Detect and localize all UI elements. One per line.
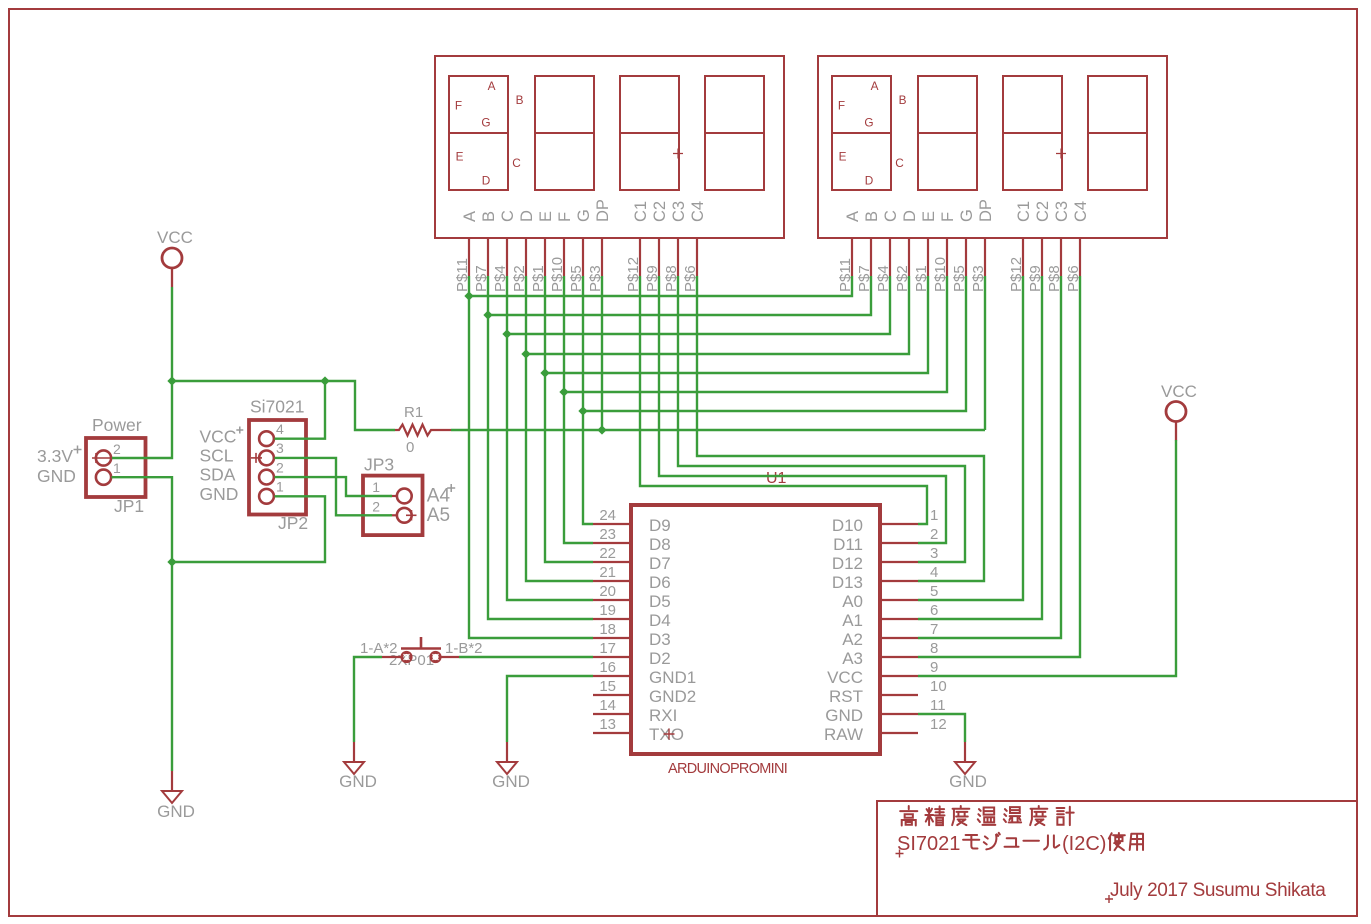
wire net VCC: right symbol to U1 pin 9 — [918, 440, 1176, 676]
svg-text:E: E — [920, 211, 938, 222]
svg-text:C4: C4 — [1072, 201, 1090, 222]
wire net DIG1_C2: display1 C2 to U1 pin 2 — [659, 276, 946, 543]
svg-text:GND: GND — [949, 772, 987, 791]
svg-text:A2: A2 — [842, 630, 863, 649]
svg-text:E: E — [456, 150, 464, 164]
svg-text:1-B*2: 1-B*2 — [445, 640, 483, 657]
svg-text:D4: D4 — [649, 611, 671, 630]
svg-text:D13: D13 — [832, 573, 863, 592]
wire net SEG_C: display1 to U1 pin 20 — [507, 276, 593, 600]
origin cross author line — [1105, 895, 1113, 903]
svg-text:C1: C1 — [632, 201, 650, 222]
resistor R1 value 0 — [395, 425, 451, 436]
wire net SEG_E: display2 to display1 — [545, 276, 928, 373]
svg-text:Power: Power — [92, 415, 142, 435]
wire net DIG2_C2: display2 C2 to U1 pin 6 — [918, 276, 1042, 619]
title block box — [877, 801, 1357, 916]
svg-text:B: B — [899, 93, 907, 107]
pushbutton S1 (reset jumper 1-A / 1-B) — [382, 637, 459, 669]
svg-text:D3: D3 — [649, 630, 671, 649]
svg-text:A: A — [488, 79, 496, 93]
svg-text:D: D — [518, 210, 536, 222]
wire net DIG1_C4: display1 C4 to U1 pin 4 — [697, 276, 984, 581]
svg-text:G: G — [481, 116, 490, 130]
svg-text:D5: D5 — [649, 592, 671, 611]
svg-text:A: A — [461, 211, 479, 222]
svg-text:JP3: JP3 — [364, 455, 394, 475]
svg-text:9: 9 — [930, 659, 938, 676]
junction SEG_D — [521, 349, 530, 358]
svg-text:GND: GND — [825, 706, 863, 725]
svg-text:13: 13 — [599, 716, 616, 733]
svg-text:18: 18 — [599, 621, 616, 638]
svg-text:C: C — [512, 156, 521, 170]
svg-text:1-A*2: 1-A*2 — [360, 640, 398, 657]
svg-text:2: 2 — [113, 441, 121, 457]
svg-text:6: 6 — [930, 602, 938, 619]
svg-text:E: E — [839, 150, 847, 164]
svg-text:Si7021: Si7021 — [250, 397, 305, 417]
wire net SEG_B: display2 to display1 — [488, 276, 871, 315]
svg-text:22: 22 — [599, 545, 616, 562]
wire net SEG_G: display2 to display1 — [583, 276, 966, 411]
svg-text:(I2C): (I2C) — [1062, 833, 1106, 855]
svg-text:DP: DP — [594, 199, 612, 222]
svg-text:A0: A0 — [842, 592, 863, 611]
svg-text:19: 19 — [599, 602, 616, 619]
svg-text:15: 15 — [599, 678, 616, 695]
svg-text:14: 14 — [599, 697, 616, 714]
power symbol VCC right — [1166, 402, 1186, 441]
svg-text:0: 0 — [406, 439, 414, 456]
wire net D2: pushbutton to U1 pin 17 — [459, 656, 593, 658]
svg-text:2: 2 — [372, 499, 380, 515]
svg-text:GND: GND — [157, 802, 195, 821]
ground symbol GND right of U1 — [955, 742, 975, 774]
svg-text:21: 21 — [599, 564, 616, 581]
svg-text:GND1: GND1 — [649, 668, 696, 687]
title text モジュール — [963, 833, 1059, 850]
wire net SEG_A: display1 to U1 pin 18 — [469, 276, 593, 638]
junction SEG_G — [578, 406, 587, 415]
junction at 172,562 — [167, 557, 176, 566]
wire net VCC: branch to JP2 pin 4 — [275, 381, 326, 439]
wire net SEG_F: display2 to display1 — [564, 276, 947, 392]
wire net SEG_B: display1 to U1 pin 19 — [488, 276, 593, 619]
svg-text:C1: C1 — [1015, 201, 1033, 222]
origin cross title line 2 — [896, 850, 904, 858]
svg-text:A4: A4 — [427, 486, 451, 507]
svg-text:23: 23 — [599, 526, 616, 543]
svg-text:GND: GND — [339, 772, 377, 791]
svg-text:C: C — [895, 156, 904, 170]
wire net DP: display2 DP column — [984, 276, 986, 430]
svg-text:A3: A3 — [842, 649, 863, 668]
svg-text:RXI: RXI — [649, 706, 677, 725]
wire net SEG_D: display2 to display1 — [526, 276, 909, 354]
svg-text:1: 1 — [372, 479, 380, 495]
ground symbol GND under pushbutton — [344, 742, 364, 774]
svg-text:G: G — [864, 116, 873, 130]
svg-text:C2: C2 — [1034, 201, 1052, 222]
svg-text:RAW: RAW — [824, 725, 863, 744]
connector JP3 — [363, 476, 423, 535]
svg-text:VCC: VCC — [200, 426, 237, 446]
connector JP2 Si7021 module — [249, 420, 306, 515]
svg-text:D2: D2 — [649, 649, 671, 668]
connector JP1 Power — [86, 438, 146, 497]
svg-text:F: F — [556, 212, 574, 222]
svg-text:D6: D6 — [649, 573, 671, 592]
svg-text:D10: D10 — [832, 516, 863, 535]
wire net DIG1_C3: display1 C3 to U1 pin 3 — [678, 276, 965, 562]
svg-text:7: 7 — [930, 621, 938, 638]
junction at 172,381 — [167, 376, 176, 385]
svg-text:B: B — [516, 93, 524, 107]
svg-text:3: 3 — [930, 545, 938, 562]
wire net GND: pushbutton to ground — [354, 657, 382, 742]
7-segment display module DISP1 — [435, 56, 784, 292]
svg-text:C4: C4 — [689, 201, 707, 222]
wire net SDA: JP2 pin 2 to JP3 pin 1 (A4) — [275, 477, 393, 496]
svg-text:GND: GND — [200, 484, 239, 504]
wire net VCC: symbol to JP1 pin 2 — [112, 287, 172, 458]
wire net SEG_E: display1 to U1 pin 22 — [545, 276, 593, 562]
svg-text:SI7021: SI7021 — [897, 833, 960, 855]
ground symbol GND under JP1 rail — [162, 771, 182, 803]
title text 使用 — [1109, 833, 1143, 850]
svg-text:24: 24 — [599, 507, 616, 524]
junction SEG_F — [559, 387, 568, 396]
svg-text:3: 3 — [276, 440, 284, 456]
wire net DIG2_C1: display2 C1 to U1 pin 5 — [918, 276, 1023, 600]
svg-text:VCC: VCC — [157, 228, 193, 247]
junction SEG_C — [502, 329, 511, 338]
svg-text:D7: D7 — [649, 554, 671, 573]
junction SEG_B — [483, 310, 492, 319]
svg-text:D9: D9 — [649, 516, 671, 535]
svg-text:July 2017 Susumu Shikata: July 2017 Susumu Shikata — [1110, 880, 1326, 901]
svg-text:GND: GND — [37, 466, 76, 486]
svg-text:VCC: VCC — [827, 668, 863, 687]
wire net SCL: JP2 pin 3 to JP3 pin 2 (A5) — [275, 458, 393, 515]
svg-text:4: 4 — [276, 421, 284, 437]
wire net DIG2_C3: display2 C3 to U1 pin 7 — [918, 276, 1061, 638]
svg-text:2: 2 — [930, 526, 938, 543]
svg-text:G: G — [575, 209, 593, 222]
svg-text:16: 16 — [599, 659, 616, 676]
svg-text:SDA: SDA — [200, 465, 236, 485]
svg-text:B: B — [863, 211, 881, 222]
svg-text:R1: R1 — [404, 404, 423, 421]
svg-text:VCC: VCC — [1161, 382, 1197, 401]
wire net DIG2_C4: display2 C4 to U1 pin 8 — [918, 276, 1080, 657]
7-segment display module DISP2 — [818, 56, 1167, 292]
title text 高精度温湿度計 — [900, 806, 1074, 826]
wire net SEG_F: display1 to U1 pin 23 — [564, 276, 593, 543]
svg-text:RST: RST — [829, 687, 863, 706]
svg-text:JP1: JP1 — [114, 496, 144, 516]
wire net SEG_D: display1 to U1 pin 21 — [526, 276, 593, 581]
svg-text:A1: A1 — [842, 611, 863, 630]
svg-text:12: 12 — [930, 716, 947, 733]
svg-text:F: F — [455, 99, 462, 113]
svg-text:1: 1 — [113, 460, 121, 476]
svg-text:8: 8 — [930, 640, 938, 657]
wire net GND: U1 pin 11 to ground — [918, 714, 965, 742]
svg-text:17: 17 — [599, 640, 616, 657]
svg-text:C2: C2 — [651, 201, 669, 222]
svg-text:D12: D12 — [832, 554, 863, 573]
svg-text:B: B — [480, 211, 498, 222]
wire net DIG1_C1: display1 C1 to U1 pin 1 — [640, 276, 927, 524]
svg-text:C: C — [882, 210, 900, 222]
svg-text:D: D — [865, 174, 874, 188]
svg-text:3.3V: 3.3V — [37, 446, 73, 466]
svg-text:20: 20 — [599, 583, 616, 600]
svg-text:11: 11 — [930, 697, 946, 714]
svg-text:4: 4 — [930, 564, 938, 581]
svg-text:GND: GND — [492, 772, 530, 791]
junction SEG_A — [464, 291, 473, 300]
svg-text:D: D — [901, 210, 919, 222]
svg-text:JP2: JP2 — [278, 513, 308, 533]
junction SEG_E — [540, 368, 549, 377]
svg-text:U1: U1 — [766, 470, 787, 487]
svg-text:A: A — [844, 211, 862, 222]
svg-text:D8: D8 — [649, 535, 671, 554]
svg-text:F: F — [939, 212, 957, 222]
junction at 325,381 — [320, 376, 329, 385]
svg-text:D: D — [482, 174, 491, 188]
svg-text:A: A — [871, 79, 879, 93]
svg-text:ARDUINOPROMINI: ARDUINOPROMINI — [668, 761, 787, 777]
svg-text:DP: DP — [977, 199, 995, 222]
junction DP / R1 — [597, 425, 606, 434]
svg-text:2: 2 — [276, 459, 284, 475]
wire net GND: U1 pin 16 to ground — [507, 676, 593, 742]
svg-text:C3: C3 — [670, 201, 688, 222]
wire net VCC: rail to R1 — [172, 381, 395, 430]
wire net DP: R1 to both display DP pins — [451, 429, 985, 431]
wire net SEG_A: display2 to display1 — [469, 276, 852, 296]
ground symbol GND under U1 GND1 — [497, 742, 517, 774]
svg-text:A5: A5 — [427, 505, 450, 526]
wire net SEG_C: display2 to display1 — [507, 276, 890, 334]
svg-text:5: 5 — [930, 583, 938, 600]
svg-text:G: G — [958, 209, 976, 222]
op-amp U1 ARDUINOPROMINI box — [593, 505, 947, 754]
svg-text:1: 1 — [276, 479, 284, 495]
svg-text:SCL: SCL — [200, 446, 234, 466]
svg-text:C: C — [499, 210, 517, 222]
svg-text:1: 1 — [930, 507, 938, 524]
wire net GND: JP1 pin 1 down to ground — [112, 477, 173, 771]
wire net DP: display1 DP column — [601, 276, 603, 430]
svg-text:E: E — [537, 211, 555, 222]
wire net GND: branch to JP2 pin 1 — [172, 496, 325, 562]
svg-text:10: 10 — [930, 678, 947, 695]
wire net SEG_G: display1 to U1 pin 24 — [583, 276, 593, 524]
svg-text:GND2: GND2 — [649, 687, 696, 706]
svg-text:F: F — [838, 99, 845, 113]
svg-text:C3: C3 — [1053, 201, 1071, 222]
svg-text:D11: D11 — [833, 535, 863, 554]
power symbol VCC left — [162, 248, 182, 287]
